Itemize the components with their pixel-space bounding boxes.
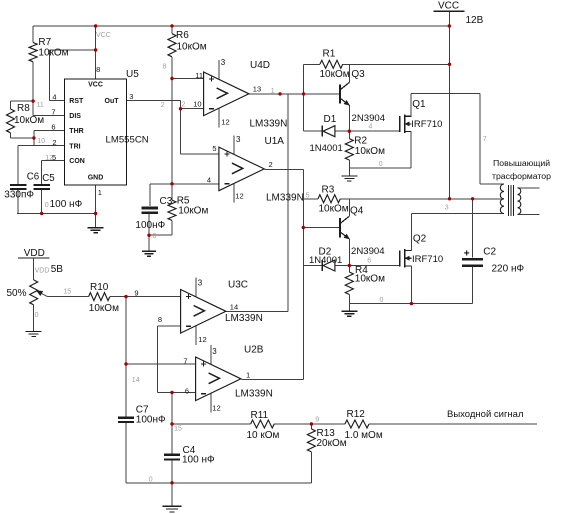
- svg-text:+: +: [464, 249, 470, 260]
- svg-text:9: 9: [315, 417, 319, 424]
- svg-text:Q3: Q3: [351, 69, 365, 80]
- svg-text:4: 4: [52, 93, 56, 102]
- svg-text:2: 2: [161, 102, 165, 109]
- svg-text:100 нФ: 100 нФ: [50, 199, 83, 210]
- svg-text:DIS: DIS: [69, 113, 81, 120]
- svg-text:трасформатор: трасформатор: [492, 171, 551, 181]
- svg-text:20кОм: 20кОм: [317, 438, 347, 449]
- svg-text:14: 14: [230, 302, 238, 311]
- svg-text:U3C: U3C: [228, 280, 248, 291]
- svg-text:2N3904: 2N3904: [351, 246, 385, 257]
- svg-text:1: 1: [246, 370, 250, 379]
- svg-text:3: 3: [198, 278, 203, 287]
- svg-text:Q2: Q2: [413, 234, 427, 245]
- svg-text:13: 13: [253, 85, 261, 94]
- svg-text:VCC: VCC: [438, 1, 459, 12]
- svg-text:VCC: VCC: [96, 32, 111, 39]
- svg-text:6: 6: [367, 258, 371, 265]
- svg-text:THR: THR: [69, 128, 83, 135]
- svg-text:OuT: OuT: [105, 98, 120, 105]
- svg-text:2: 2: [52, 138, 56, 147]
- svg-text:Повышающий: Повышающий: [493, 158, 550, 168]
- svg-text:5: 5: [212, 144, 216, 153]
- svg-text:Q1: Q1: [412, 99, 426, 110]
- svg-text:10: 10: [193, 100, 201, 109]
- svg-text:12: 12: [221, 118, 229, 127]
- svg-text:2N3904: 2N3904: [352, 113, 386, 124]
- svg-text:11: 11: [195, 71, 203, 80]
- svg-text:7: 7: [51, 108, 55, 117]
- svg-text:8: 8: [158, 315, 162, 324]
- svg-text:R7: R7: [38, 37, 51, 48]
- svg-text:6: 6: [185, 386, 189, 395]
- svg-text:5: 5: [306, 193, 310, 200]
- svg-text:4: 4: [369, 124, 373, 131]
- svg-text:GND: GND: [88, 175, 104, 182]
- svg-text:R12: R12: [347, 409, 366, 420]
- svg-text:R8: R8: [17, 103, 30, 114]
- svg-text:9: 9: [134, 288, 138, 297]
- svg-text:D1: D1: [324, 114, 337, 125]
- svg-text:11: 11: [37, 102, 44, 109]
- svg-text:C6: C6: [27, 172, 39, 183]
- svg-text:U4D: U4D: [250, 60, 270, 71]
- svg-text:R6: R6: [176, 30, 189, 41]
- svg-text:0: 0: [379, 161, 383, 168]
- svg-text:C5: C5: [42, 173, 54, 184]
- svg-text:12В: 12В: [466, 15, 484, 26]
- svg-text:14: 14: [132, 377, 140, 384]
- svg-text:Выходной сигнал: Выходной сигнал: [447, 409, 524, 420]
- svg-text:5В: 5В: [51, 264, 64, 275]
- svg-text:LM339N: LM339N: [250, 119, 288, 130]
- svg-text:C2: C2: [483, 247, 496, 258]
- svg-text:0: 0: [35, 312, 39, 319]
- svg-text:VDD: VDD: [35, 267, 50, 274]
- svg-text:VDD: VDD: [24, 248, 45, 259]
- svg-text:1.0 мОм: 1.0 мОм: [345, 430, 383, 441]
- svg-text:Q4: Q4: [350, 206, 364, 217]
- svg-text:10кОм: 10кОм: [319, 204, 349, 215]
- svg-text:100 нФ: 100 нФ: [182, 455, 215, 466]
- svg-text:10кОм: 10кОм: [89, 303, 119, 314]
- svg-text:4: 4: [207, 175, 211, 184]
- svg-text:10кОм: 10кОм: [178, 206, 208, 217]
- svg-text:U1A: U1A: [265, 136, 285, 147]
- svg-text:R3: R3: [322, 185, 335, 196]
- svg-text:LM339N: LM339N: [225, 313, 263, 324]
- svg-text:15: 15: [63, 289, 71, 296]
- svg-text:10 кОм: 10 кОм: [247, 430, 280, 441]
- svg-text:12: 12: [198, 335, 206, 344]
- svg-text:0: 0: [149, 477, 153, 484]
- svg-text:R1: R1: [323, 49, 336, 60]
- svg-text:3: 3: [445, 205, 449, 212]
- svg-text:3: 3: [212, 347, 217, 356]
- svg-text:CON: CON: [69, 158, 85, 165]
- svg-text:0: 0: [153, 233, 157, 240]
- svg-text:1: 1: [271, 88, 275, 95]
- svg-text:LM339N: LM339N: [235, 389, 273, 400]
- svg-text:10кОм: 10кОм: [14, 115, 44, 126]
- svg-text:12: 12: [212, 404, 220, 413]
- svg-text:IRF710: IRF710: [412, 254, 443, 265]
- svg-text:IRF710: IRF710: [411, 119, 442, 130]
- svg-text:1N4001: 1N4001: [309, 255, 342, 266]
- svg-text:RST: RST: [69, 98, 84, 105]
- svg-text:10кОм: 10кОм: [320, 69, 350, 80]
- svg-text:8: 8: [163, 64, 167, 71]
- svg-text:3: 3: [236, 135, 241, 144]
- svg-text:6: 6: [51, 123, 55, 132]
- svg-text:U5: U5: [126, 69, 139, 80]
- svg-text:R10: R10: [90, 282, 109, 293]
- svg-text:7: 7: [183, 356, 187, 365]
- svg-text:0: 0: [45, 202, 49, 209]
- svg-text:10кОм: 10кОм: [177, 42, 207, 53]
- svg-text:1: 1: [98, 188, 102, 197]
- svg-text:15: 15: [174, 426, 182, 433]
- svg-text:10: 10: [37, 138, 45, 145]
- svg-text:2: 2: [182, 102, 186, 109]
- svg-text:R11: R11: [251, 410, 269, 421]
- svg-text:U2B: U2B: [244, 345, 264, 356]
- svg-text:3: 3: [221, 58, 226, 67]
- svg-text:10кОм: 10кОм: [355, 146, 385, 157]
- svg-text:0: 0: [380, 297, 384, 304]
- svg-text:330пФ: 330пФ: [4, 190, 34, 201]
- svg-text:100нФ: 100нФ: [135, 220, 165, 231]
- svg-text:TRI: TRI: [69, 143, 80, 150]
- svg-text:LM555CN: LM555CN: [106, 135, 149, 146]
- svg-text:LM339N: LM339N: [266, 193, 304, 204]
- svg-text:50%: 50%: [7, 288, 27, 299]
- svg-text:3: 3: [129, 92, 133, 101]
- svg-text:12: 12: [45, 155, 53, 162]
- svg-text:C3: C3: [160, 196, 173, 207]
- svg-text:7: 7: [483, 136, 487, 143]
- svg-text:2: 2: [269, 160, 273, 169]
- svg-text:VCC: VCC: [88, 82, 103, 89]
- svg-text:220 нФ: 220 нФ: [492, 264, 525, 275]
- svg-text:100нФ: 100нФ: [136, 415, 166, 426]
- svg-text:12: 12: [235, 192, 243, 201]
- svg-text:10кОм: 10кОм: [355, 274, 385, 285]
- svg-text:10кОм: 10кОм: [38, 48, 68, 59]
- svg-text:1N4001: 1N4001: [310, 143, 343, 154]
- svg-text:8: 8: [96, 65, 100, 74]
